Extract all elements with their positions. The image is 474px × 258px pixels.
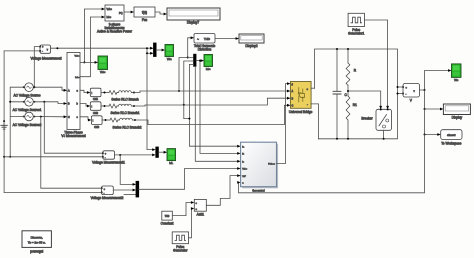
wire V plus stub [397,86,404,88]
svg-text:Series RLC Branch1: Series RLC Branch1 [110,111,139,115]
wire R node to breaker [347,90,382,109]
svg-text:AC Voltage Source2: AC Voltage Source2 [13,123,42,127]
universal bridge U1 [289,82,313,114]
svg-text:Distortion: Distortion [198,47,212,51]
wire pulse generator 1 to breaker [364,20,389,109]
resistor R [346,48,357,91]
svg-text:simout: simout [447,133,455,137]
svg-text:Iabc: Iabc [206,68,211,71]
svg-text:Series RLC Branch: Series RLC Branch [111,98,139,102]
wire into THD [187,36,194,58]
wire Fcn to Display7 [155,12,167,15]
scope Va Ia [165,45,174,62]
wire VM2 plus tap phase C [41,117,102,189]
wire V output junction [420,69,452,91]
wire VM1 out to mux3 [115,154,156,157]
wire junction to Display [424,90,444,110]
wire VM plus tap to phase A [33,47,40,89]
svg-text:Display: Display [452,116,463,120]
wire mux4 to subsystem port4 [139,167,241,189]
wire VM1 branch to mux4 [120,155,136,186]
svg-text:Pulses: Pulses [268,164,275,166]
mux2 [194,54,196,66]
svg-text:thecontrol: thecontrol [252,189,265,193]
block 3-phase Instantaneous Active & Reactive Power [97,5,133,34]
subsystem controller [241,142,279,192]
powergui [22,231,51,254]
wire V-I c to CM3 [80,117,91,122]
wire mux1 to scope [156,49,165,52]
wire constant to add [172,201,194,216]
voltage measurement 1 [92,151,125,165]
source neutral bus [9,87,23,158]
wire bridge plus [311,87,315,89]
capacitor C [333,48,348,140]
add block [194,199,206,216]
svg-text:Ts = 2e-05 s.: Ts = 2e-05 s. [28,241,46,245]
wire VM minus to left bus [4,50,40,52]
svg-text:Add1: Add1 [197,213,205,217]
wire VM1 minus to bus [4,156,103,158]
current measurement CM3 [91,116,102,129]
svg-text:∿: ∿ [197,38,199,41]
svg-text:VaIa: VaIa [167,58,172,61]
svg-text:CM1: CM1 [93,98,99,101]
wire tap to subsystem port3 [195,66,240,162]
svg-text:Display7: Display7 [187,21,199,25]
scope Iabc2 [204,55,213,72]
wire VM1 plus tap phase B [44,102,103,153]
display Display2 [239,34,264,48]
svg-text:Discrete,: Discrete, [31,236,43,240]
wire pulse generator to add [189,207,195,238]
wire add to subsystem port5 [206,174,240,205]
series RLC branch 1 [101,91,139,102]
svg-text:Fcn: Fcn [142,18,148,22]
svg-text:Voltage Measurement: Voltage Measurement [30,56,61,60]
wire bridge minus [311,104,319,139]
svg-text:IsIL: IsIL [169,162,174,165]
wire breaker bottom to rail [383,130,385,140]
scope Vdc [452,64,462,82]
wire PQ to Fcn [124,11,134,14]
pulse generator 1 [348,13,364,35]
mux1 [154,43,157,57]
block Fcn f(u) [134,7,155,22]
wire V minus stub [397,93,404,95]
svg-text:Generator: Generator [173,249,188,253]
svg-text:Voltage Measurement2: Voltage Measurement2 [91,196,124,200]
wire mux3 to scope3 [159,151,168,154]
svg-text:Vabc: Vabc [107,8,113,11]
svg-text:Series RLC Branch2: Series RLC Branch2 [112,125,141,129]
svg-text:Iabc: Iabc [107,16,112,19]
voltage measurement 2 [91,186,124,200]
svg-text:-: - [307,104,308,107]
wire feedback V to subsystem [237,135,424,193]
wire VM2 out to mux4 [113,189,136,192]
svg-text:789: 789 [165,214,170,218]
series RLC branch 3 [102,118,142,129]
wire source C to V-I C [35,115,68,118]
svg-text:Display2: Display2 [245,44,257,48]
svg-text:CM2: CM2 [93,112,99,115]
series RLC branch 2 [101,104,140,115]
wire mux2 to scope2 [196,59,204,62]
wire riser to mux3 and mux1 [146,47,156,151]
current measurement CM2 [90,102,101,115]
block Three-Phase V-I Measurement [61,53,85,139]
svg-text:powergui: powergui [30,249,43,253]
svg-text:Constant: Constant [161,221,174,225]
voltage measurement V [402,84,419,103]
constant 789 [161,211,174,225]
block Voltage Measurement (top) [30,45,61,60]
block THD Total Harmonic Distortion [194,34,216,52]
current measurement CM1 [90,88,101,101]
mux2 input stubs [178,58,194,119]
AC Voltage Source 1 [14,83,41,98]
wire tap to subsystem port2 [199,60,241,155]
display Display [443,104,470,120]
svg-text:THD: THD [204,37,211,41]
AC Voltage Source 2 [13,98,42,113]
svg-text:V-I Measurement: V-I Measurement [61,134,85,138]
AC Voltage Source 3 [13,112,42,127]
svg-text:AC Voltage Source: AC Voltage Source [14,94,41,98]
scope Vabc [98,56,108,74]
svg-text:C: C [68,116,70,119]
wire phase B to bridge B [134,97,290,106]
ground [1,121,8,129]
wire VM output to mux1 [51,47,154,50]
load circuit frame [315,49,398,139]
mux4 input3 stub [124,193,136,195]
svg-text:f(u): f(u) [142,10,147,14]
svg-text:Generator1: Generator1 [348,32,364,36]
svg-text:Vd*: Vd* [242,176,246,178]
left ground bus vertical [3,51,5,193]
svg-text:Universal Bridge: Universal Bridge [289,110,313,114]
svg-text:CM3: CM3 [94,126,100,129]
svg-text:Breaker: Breaker [361,116,373,120]
wire V-I b to CM2 [80,104,90,108]
svg-text:PQ: PQ [119,12,123,15]
svg-text:R1: R1 [353,103,357,107]
wire source A to V-I A [35,87,68,92]
pulse generator [172,232,188,253]
wire pulses to bridge g [277,82,291,163]
svg-text:AC Voltage Source1: AC Voltage Source1 [13,108,42,112]
wire Vabc to power block [83,8,105,64]
scope IL [167,149,176,166]
display Display7 [167,8,220,25]
wire THD to Display2 [215,37,239,40]
wire Vabc out to scope [80,61,98,64]
wire source B to V-I B [35,101,68,105]
wire phase C to bridge C [135,104,290,125]
wire tap to subsystem port1 [188,65,240,148]
wire junction to simout [424,109,441,136]
wire VM2 minus to bus [4,191,102,193]
svg-text:Active & Reactive Power: Active & Reactive Power [97,30,133,34]
mux4 [136,181,139,197]
to workspace simout [441,130,462,146]
wire phase A to bridge A [134,90,290,93]
svg-text:Vabc: Vabc [100,71,106,74]
mux3 [156,147,159,157]
wire V-I a to CM1 [80,90,90,94]
resistor R1 [346,91,357,140]
svg-text:To Workspace: To Workspace [441,142,461,146]
breaker [361,109,391,131]
wire Iabc to power block [80,16,105,77]
svg-text:C: C [292,105,294,108]
